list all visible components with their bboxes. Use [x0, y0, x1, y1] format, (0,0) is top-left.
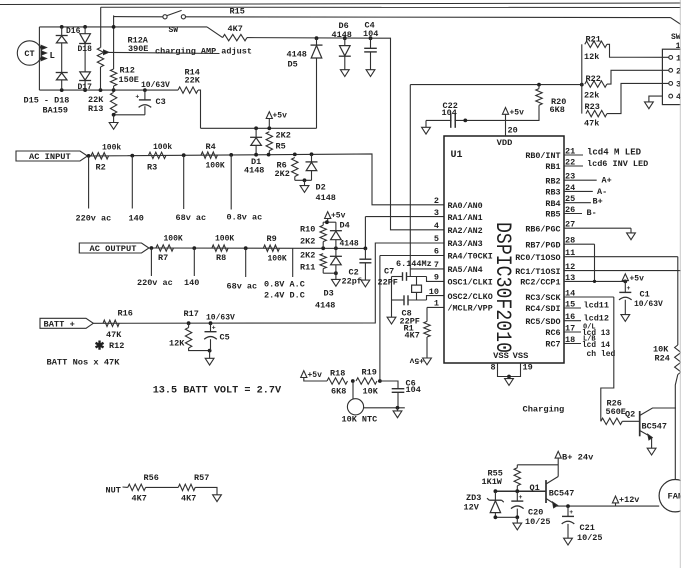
svg-text:VSS: VSS [513, 351, 529, 361]
svg-text:6.144Mz: 6.144Mz [396, 259, 432, 269]
svg-text:150E: 150E [119, 75, 139, 85]
svg-text:22k: 22k [584, 90, 599, 100]
svg-text:L: L [50, 51, 55, 61]
svg-text:8: 8 [491, 362, 496, 372]
svg-text:RA0/AN0: RA0/AN0 [448, 201, 483, 211]
svg-text:+5v: +5v [308, 371, 323, 380]
svg-text:104: 104 [406, 385, 421, 395]
svg-text:RA2/AN2: RA2/AN2 [448, 226, 483, 236]
svg-text:R23: R23 [585, 102, 600, 112]
svg-text:C3: C3 [156, 97, 166, 107]
svg-text:RC3/SCK: RC3/SCK [525, 293, 561, 303]
svg-text:100K: 100K [215, 235, 234, 244]
svg-text:R7: R7 [158, 253, 168, 263]
svg-text:12V: 12V [464, 503, 480, 513]
svg-text:/MCLR/VPP: /MCLR/VPP [448, 304, 493, 314]
svg-text:R5: R5 [276, 142, 286, 152]
svg-text:charging AMP adjust: charging AMP adjust [155, 46, 252, 56]
svg-text:9: 9 [434, 273, 439, 283]
svg-text:R15: R15 [230, 7, 245, 17]
svg-text:R2: R2 [96, 163, 106, 173]
svg-text:3: 3 [434, 208, 439, 218]
svg-text:R4: R4 [206, 142, 216, 152]
svg-text:lcd11: lcd11 [584, 301, 610, 311]
svg-text:20: 20 [508, 126, 518, 136]
svg-text:27: 27 [565, 220, 575, 230]
svg-text:AC INPUT: AC INPUT [29, 152, 71, 162]
svg-text:2K2: 2K2 [276, 131, 291, 141]
svg-text:lcd 14: lcd 14 [582, 342, 610, 350]
svg-text:22K: 22K [185, 75, 201, 85]
svg-text:+: + [627, 285, 631, 292]
svg-text:R57: R57 [194, 473, 209, 483]
svg-text:4148: 4148 [287, 49, 307, 59]
svg-text:4K7: 4K7 [132, 494, 147, 504]
svg-text:100K: 100K [206, 162, 225, 171]
svg-text:Q2: Q2 [625, 410, 635, 420]
svg-text:R10: R10 [300, 225, 315, 235]
svg-text:+5v: +5v [331, 212, 346, 221]
svg-text:RC4/SDI: RC4/SDI [525, 304, 560, 314]
svg-text:RB0/INT: RB0/INT [525, 151, 560, 161]
svg-text:+: + [212, 325, 216, 332]
svg-text:14: 14 [565, 288, 575, 298]
svg-text:560E: 560E [606, 407, 626, 417]
svg-text:22PF: 22PF [378, 277, 398, 287]
svg-text:Q1: Q1 [530, 483, 540, 493]
svg-text:R11: R11 [300, 262, 315, 272]
svg-text:lcd12: lcd12 [584, 313, 610, 323]
svg-text:10K: 10K [363, 387, 379, 397]
svg-text:68v ac: 68v ac [176, 213, 207, 223]
svg-text:RC1/T1OSI: RC1/T1OSI [515, 267, 560, 277]
svg-text:BC547: BC547 [549, 489, 575, 499]
svg-text:B+: B+ [593, 197, 603, 207]
svg-text:U1: U1 [451, 150, 463, 161]
svg-text:R22: R22 [586, 74, 601, 84]
svg-text:ZD3: ZD3 [466, 493, 481, 503]
svg-text:2K2: 2K2 [275, 169, 290, 179]
svg-text:RC5/SDO: RC5/SDO [525, 317, 560, 327]
svg-text:1: 1 [434, 299, 439, 309]
svg-text:11: 11 [565, 248, 575, 258]
svg-text:D4: D4 [340, 220, 350, 230]
svg-text:104: 104 [363, 29, 378, 39]
svg-text:19: 19 [523, 362, 533, 372]
svg-text:NUT: NUT [106, 486, 121, 496]
svg-text:24: 24 [565, 183, 575, 193]
svg-text:100k: 100k [153, 143, 172, 152]
svg-text:4148: 4148 [244, 166, 264, 176]
svg-text:D3: D3 [324, 288, 334, 298]
svg-text:BC547: BC547 [642, 422, 668, 432]
svg-text:6K8: 6K8 [550, 105, 565, 115]
svg-text:22: 22 [565, 157, 575, 167]
svg-text:R56: R56 [144, 473, 159, 483]
svg-text:RB5: RB5 [545, 210, 560, 220]
svg-text:6K8: 6K8 [331, 387, 346, 397]
svg-text:140: 140 [129, 214, 144, 224]
svg-text:D17: D17 [78, 83, 93, 92]
svg-text:D2: D2 [316, 183, 326, 193]
svg-text:R13: R13 [88, 104, 103, 114]
svg-text:28: 28 [565, 236, 575, 246]
svg-text:lcd6 INV LED: lcd6 INV LED [587, 159, 648, 169]
svg-text:13: 13 [565, 273, 575, 283]
svg-text:25: 25 [565, 194, 575, 204]
svg-text:RA5/AN4: RA5/AN4 [448, 265, 483, 275]
svg-text:C20: C20 [528, 508, 543, 518]
svg-text:RC7: RC7 [545, 340, 560, 350]
svg-text:R12: R12 [109, 341, 124, 351]
svg-text:RB7/PGD: RB7/PGD [525, 240, 560, 250]
svg-text:A+: A+ [602, 176, 612, 186]
svg-text:17: 17 [565, 323, 575, 333]
svg-text:4148: 4148 [315, 301, 335, 311]
svg-text:0.8V A.C: 0.8V A.C [264, 279, 305, 289]
svg-text:RB3: RB3 [545, 188, 560, 198]
svg-text:+5v: +5v [630, 275, 645, 284]
svg-text:68v ac: 68v ac [227, 282, 258, 292]
svg-text:2.4V D.C: 2.4V D.C [264, 290, 305, 300]
svg-text:10K NTC: 10K NTC [342, 415, 378, 425]
svg-text:R3: R3 [147, 163, 157, 173]
svg-text:A-: A- [597, 187, 607, 197]
svg-text:4K7: 4K7 [181, 494, 196, 504]
svg-text:VSS: VSS [493, 351, 509, 361]
svg-text:✱: ✱ [95, 340, 105, 354]
svg-text:+12v: +12v [619, 495, 639, 505]
svg-text:+5v: +5v [273, 112, 288, 121]
svg-text:22pf: 22pf [342, 277, 362, 287]
svg-text:R21: R21 [586, 34, 601, 44]
svg-text:4148: 4148 [340, 239, 359, 248]
svg-text:DSPIC30F2010: DSPIC30F2010 [490, 222, 515, 353]
svg-text:R8: R8 [216, 253, 226, 263]
svg-text:104: 104 [442, 108, 457, 118]
svg-text:RA1/AN1: RA1/AN1 [448, 213, 483, 223]
svg-text:RB6/PGC: RB6/PGC [525, 224, 560, 234]
svg-text:5: 5 [434, 234, 439, 244]
svg-text:220v ac: 220v ac [76, 214, 112, 224]
svg-text:+: + [569, 509, 573, 516]
svg-text:D18: D18 [78, 45, 93, 54]
svg-text:0.8v ac: 0.8v ac [227, 213, 263, 223]
svg-text:100k: 100k [102, 144, 121, 153]
svg-text:R18: R18 [330, 369, 345, 379]
svg-text:B-: B- [587, 208, 597, 218]
svg-text:Charging: Charging [523, 405, 565, 415]
svg-text:R16: R16 [118, 309, 133, 319]
svg-text:R24: R24 [655, 354, 670, 364]
svg-text:lcd4 M LED: lcd4 M LED [587, 148, 642, 158]
svg-text:RC6: RC6 [545, 328, 560, 338]
svg-text:2K2: 2K2 [300, 237, 315, 247]
svg-text:12K: 12K [169, 338, 185, 348]
svg-text:C21: C21 [580, 523, 595, 533]
svg-text:10: 10 [429, 287, 439, 297]
svg-text:BA159: BA159 [43, 105, 69, 115]
svg-text:+: + [519, 494, 523, 501]
svg-text:RA3/AN3: RA3/AN3 [448, 239, 483, 249]
svg-text:390E: 390E [128, 44, 148, 54]
svg-text:2: 2 [434, 196, 439, 206]
svg-text:RA4/T0CKI: RA4/T0CKI [448, 252, 493, 262]
svg-text:16: 16 [565, 312, 575, 322]
svg-text:D16: D16 [66, 27, 81, 36]
svg-text:6: 6 [434, 247, 439, 257]
svg-text:10/63V: 10/63V [141, 81, 170, 90]
svg-text:VDD: VDD [497, 138, 513, 148]
svg-text:+: + [135, 93, 139, 100]
svg-text:C7: C7 [384, 267, 394, 277]
svg-text:7: 7 [434, 260, 439, 270]
svg-text:D15 - D18: D15 - D18 [24, 95, 70, 105]
svg-text:21: 21 [565, 146, 575, 156]
svg-text:100K: 100K [268, 255, 287, 264]
svg-text:47K: 47K [106, 330, 122, 340]
svg-text:B+ 24v: B+ 24v [562, 453, 594, 463]
svg-text:RB1: RB1 [545, 162, 560, 172]
svg-text:26: 26 [565, 205, 575, 215]
svg-text:10/25: 10/25 [577, 533, 603, 543]
svg-text:FAN: FAN [668, 492, 681, 502]
svg-text:OSC2/CLKO: OSC2/CLKO [448, 292, 493, 302]
svg-text:D5: D5 [288, 60, 298, 70]
svg-text:13.5 BATT VOLT = 2.7V: 13.5 BATT VOLT = 2.7V [153, 386, 282, 397]
svg-text:CT: CT [24, 49, 34, 59]
svg-text:140: 140 [184, 278, 199, 288]
svg-text:OSC1/CLKI: OSC1/CLKI [448, 278, 493, 288]
svg-text:23: 23 [565, 172, 575, 182]
svg-text:ch led: ch led [587, 350, 616, 359]
svg-text:18: 18 [565, 335, 575, 345]
svg-text:10/25: 10/25 [525, 517, 551, 527]
svg-text:RC0/T1OSO: RC0/T1OSO [515, 253, 560, 263]
svg-text:RB4: RB4 [545, 199, 560, 209]
svg-text:1K1W: 1K1W [482, 477, 503, 487]
svg-text:+5v: +5v [409, 356, 424, 365]
svg-text:+5v: +5v [510, 109, 525, 118]
svg-text:C5: C5 [220, 332, 230, 342]
svg-text:15: 15 [565, 299, 575, 309]
svg-text:2K2: 2K2 [300, 251, 315, 261]
svg-text:R17: R17 [184, 309, 199, 319]
svg-text:100K: 100K [164, 235, 183, 244]
svg-text:RC2/CCP1: RC2/CCP1 [520, 278, 560, 288]
svg-text:4K7: 4K7 [228, 24, 243, 34]
svg-text:4: 4 [434, 221, 439, 231]
svg-text:12k: 12k [584, 52, 599, 62]
svg-text:BATT +: BATT + [44, 320, 75, 330]
svg-text:C1: C1 [640, 290, 650, 300]
svg-text:R19: R19 [362, 368, 377, 378]
svg-text:220v ac: 220v ac [137, 278, 173, 288]
svg-text:12: 12 [565, 262, 575, 272]
svg-text:10/63V: 10/63V [634, 300, 663, 309]
svg-text:4K7: 4K7 [405, 331, 420, 341]
svg-text:AC OUTPUT: AC OUTPUT [90, 244, 137, 254]
svg-text:R9: R9 [267, 234, 277, 244]
svg-text:BATT Nos x 47K: BATT Nos x 47K [47, 358, 121, 368]
svg-text:47k: 47k [584, 118, 599, 128]
svg-text:10/63V: 10/63V [206, 313, 235, 322]
svg-text:RB2: RB2 [545, 176, 560, 186]
svg-text:4148: 4148 [332, 30, 352, 40]
svg-text:4148: 4148 [316, 193, 336, 203]
